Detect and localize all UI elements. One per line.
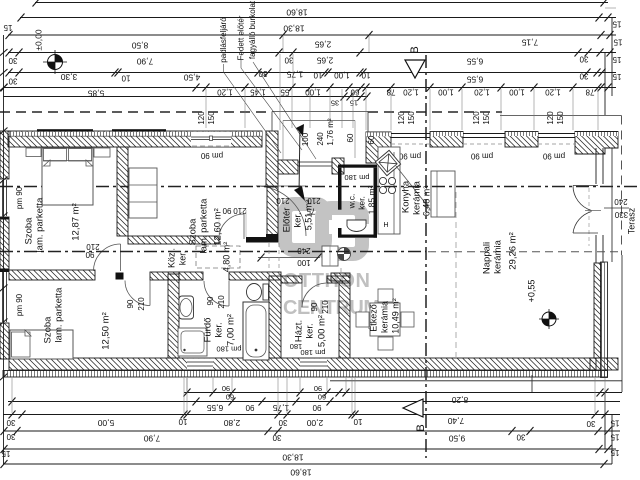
dining table bbox=[370, 303, 400, 336]
svg-text:lam. parketta: lam. parketta bbox=[199, 198, 210, 254]
door bedroom2 arc bbox=[125, 281, 150, 306]
svg-text:30: 30 bbox=[8, 56, 17, 65]
svg-text:1,85 m²: 1,85 m² bbox=[366, 185, 376, 214]
svg-text:ker.: ker. bbox=[177, 251, 187, 266]
svg-text:30: 30 bbox=[579, 71, 588, 80]
svg-text:Étkező: Étkező bbox=[368, 304, 378, 332]
entry recess wall right bbox=[332, 158, 344, 174]
dim line main chain bottom bbox=[3, 414, 620, 416]
dim line 8,50 2,65 7,15 top bbox=[8, 34, 616, 36]
dim line 18,30 top bbox=[20, 17, 616, 19]
svg-text:7,90: 7,90 bbox=[136, 56, 153, 66]
svg-text:15: 15 bbox=[610, 418, 619, 427]
glazing top kitchen window bbox=[391, 133, 430, 135]
right wall masonry bbox=[594, 263, 601, 358]
entry arrow bbox=[294, 186, 305, 201]
svg-text:pm 90: pm 90 bbox=[15, 186, 24, 209]
right wall exterior comb strip bbox=[601, 262, 608, 378]
svg-text:60: 60 bbox=[318, 393, 326, 402]
svg-text:ker.: ker. bbox=[293, 212, 304, 227]
svg-text:2,80: 2,80 bbox=[223, 418, 240, 428]
svg-text:6,55: 6,55 bbox=[466, 56, 483, 66]
svg-text:120: 120 bbox=[472, 111, 481, 125]
svg-text:pm 90: pm 90 bbox=[398, 151, 421, 160]
svg-text:90: 90 bbox=[310, 302, 319, 311]
svg-text:+0,55: +0,55 bbox=[526, 280, 536, 303]
svg-text:15: 15 bbox=[350, 99, 358, 108]
wc room walls bbox=[338, 165, 377, 168]
svg-text:240: 240 bbox=[316, 132, 325, 146]
entry door opening bbox=[298, 161, 332, 163]
svg-text:10: 10 bbox=[353, 417, 362, 426]
interior wall eloter left lower bbox=[267, 187, 278, 242]
living room top pier 2 bbox=[505, 132, 538, 148]
svg-text:5,51 m²: 5,51 m² bbox=[303, 200, 313, 231]
svg-text:ker.: ker. bbox=[214, 322, 225, 337]
svg-text:2,65: 2,65 bbox=[316, 55, 333, 65]
svg-text:7,90: 7,90 bbox=[143, 433, 160, 443]
svg-text:30: 30 bbox=[6, 418, 15, 427]
svg-text:210: 210 bbox=[86, 242, 100, 251]
svg-text:1,20: 1,20 bbox=[403, 87, 419, 96]
svg-text:15: 15 bbox=[612, 19, 621, 28]
svg-text:Előtér: Előtér bbox=[282, 208, 293, 233]
nightstand right bedroom1 bbox=[94, 148, 110, 157]
svg-text:90: 90 bbox=[314, 384, 322, 393]
door 12,60 opening arc bbox=[219, 214, 244, 239]
svg-text:padlásfeljáró: padlásfeljáró bbox=[219, 17, 228, 63]
door bathroom arc bbox=[204, 281, 229, 306]
svg-text:240: 240 bbox=[297, 246, 311, 255]
corner block bottom right bbox=[590, 358, 618, 370]
svg-text:Konyha: Konyha bbox=[401, 180, 412, 213]
svg-text:pm 180: pm 180 bbox=[344, 173, 369, 182]
dim line 5,85 and window chain top bbox=[3, 87, 616, 89]
dim line total 18,60 top bbox=[35, 2, 608, 4]
exterior wall top bedrooms bbox=[8, 131, 262, 147]
svg-text:150: 150 bbox=[407, 111, 416, 125]
svg-text:90: 90 bbox=[245, 403, 254, 412]
svg-text:90: 90 bbox=[206, 296, 215, 305]
svg-text:Szoba: Szoba bbox=[24, 217, 35, 245]
svg-text:60: 60 bbox=[346, 133, 355, 142]
entrance door swing arc bbox=[256, 186, 306, 236]
svg-text:Terasz: Terasz bbox=[626, 207, 636, 234]
svg-text:kerámia: kerámia bbox=[493, 239, 504, 274]
svg-text:kerámia: kerámia bbox=[379, 301, 389, 333]
interior wall bedroom1/12,60 bbox=[117, 147, 128, 236]
svg-text:Fedett előtér: Fedett előtér bbox=[237, 15, 246, 60]
svg-text:ker.: ker. bbox=[305, 323, 316, 338]
wc washbasin bbox=[347, 220, 366, 232]
svg-text:w.c.: w.c. bbox=[346, 194, 356, 210]
window bathroom bottom bbox=[187, 359, 213, 370]
eloter mini dim line bbox=[258, 257, 320, 259]
svg-text:15: 15 bbox=[1, 449, 10, 458]
svg-text:7,00 m²: 7,00 m² bbox=[226, 314, 237, 346]
terrace slab edge bbox=[611, 148, 613, 262]
svg-text:Nappali: Nappali bbox=[482, 242, 493, 274]
attic access dashed rect bbox=[196, 246, 240, 268]
wall bedroom1/bedroom2 bbox=[9, 270, 95, 280]
svg-text:60: 60 bbox=[367, 135, 376, 144]
dim chain 18,60 detailed top bbox=[8, 72, 616, 74]
section line B-B vertical bbox=[425, 55, 427, 458]
svg-text:ker.: ker. bbox=[356, 196, 366, 210]
shower bathroom bbox=[178, 328, 207, 356]
svg-text:18,30: 18,30 bbox=[282, 452, 304, 462]
exterior wall left bbox=[0, 131, 9, 179]
dim line 6,55 90 1,75 90 bottom bbox=[8, 401, 620, 403]
svg-text:90: 90 bbox=[222, 384, 230, 393]
svg-text:30: 30 bbox=[516, 432, 525, 441]
svg-text:35: 35 bbox=[331, 99, 339, 108]
corridor bottom wall left bbox=[116, 273, 124, 280]
svg-text:4,50: 4,50 bbox=[183, 72, 200, 82]
toilet bathroom bbox=[263, 284, 269, 300]
svg-text:pm 180: pm 180 bbox=[300, 348, 325, 357]
dim line 30 7,90 2,65 30 6,55 30 top bbox=[8, 52, 616, 54]
dim line 7,90 9,50 bottom bbox=[3, 430, 620, 432]
svg-text:10,49 m²: 10,49 m² bbox=[390, 298, 400, 334]
svg-text:210: 210 bbox=[276, 196, 290, 205]
roof overhang solid right bbox=[500, 115, 622, 117]
section line A-A horizontal lower jog bbox=[0, 251, 426, 253]
door bedroom1 arc bbox=[94, 244, 121, 271]
svg-text:12,87 m²: 12,87 m² bbox=[71, 203, 82, 241]
dim line 35 15 top bbox=[3, 96, 368, 98]
svg-text:B: B bbox=[409, 46, 421, 53]
north/level symbol top-left bbox=[43, 50, 67, 74]
svg-text:5,00 m²: 5,00 m² bbox=[317, 315, 328, 347]
svg-text:210: 210 bbox=[137, 297, 146, 311]
svg-text:7,15: 7,15 bbox=[521, 37, 538, 47]
svg-text:lam. parketta: lam. parketta bbox=[35, 197, 46, 253]
nightstand left bedroom1 bbox=[26, 148, 41, 157]
svg-text:2,65: 2,65 bbox=[314, 39, 331, 49]
eloter cabinet bbox=[322, 246, 338, 266]
right edge dim verticals bbox=[611, 18, 613, 97]
svg-text:15: 15 bbox=[612, 72, 621, 81]
svg-text:pm 90: pm 90 bbox=[200, 151, 223, 160]
svg-text:pm 90: pm 90 bbox=[470, 151, 493, 160]
wall left middle bbox=[0, 217, 9, 271]
svg-text:fagyálló burkolat: fagyálló burkolat bbox=[248, 0, 257, 59]
svg-text:1,00: 1,00 bbox=[438, 87, 454, 96]
window hazt bottom bbox=[300, 359, 327, 370]
porch outline bbox=[272, 111, 368, 113]
svg-text:,55: ,55 bbox=[280, 87, 292, 96]
svg-text:10: 10 bbox=[121, 73, 130, 82]
svg-text:1,00: 1,00 bbox=[509, 87, 525, 96]
svg-text:15: 15 bbox=[610, 432, 619, 441]
witness lines entrance chain bbox=[205, 89, 207, 128]
french door arcs bbox=[573, 186, 592, 211]
glazing top living window 2 bbox=[538, 133, 575, 135]
bed double bedroom1 bbox=[42, 148, 93, 205]
svg-text:1,20: 1,20 bbox=[545, 87, 561, 96]
svg-text:15: 15 bbox=[610, 448, 619, 457]
svg-text:1,76 m²: 1,76 m² bbox=[326, 118, 335, 145]
svg-text:1,00: 1,00 bbox=[334, 70, 350, 79]
svg-text:1,00: 1,00 bbox=[305, 87, 321, 96]
svg-text:150: 150 bbox=[482, 111, 491, 125]
level marker eloter bbox=[338, 248, 351, 261]
svg-text:30: 30 bbox=[8, 76, 17, 85]
wardrobe room 12,60 bbox=[129, 168, 157, 218]
level marker living bbox=[539, 309, 559, 329]
kitchen stove bbox=[379, 177, 386, 184]
svg-text:6,55: 6,55 bbox=[466, 74, 483, 84]
living room top pier 1 bbox=[430, 132, 463, 148]
svg-text:15: 15 bbox=[3, 23, 12, 32]
svg-text:120: 120 bbox=[397, 111, 406, 125]
shutter bar room 12,60 top bbox=[112, 129, 166, 131]
dining chairs bbox=[378, 289, 393, 302]
kitchen corner pier wall bbox=[366, 132, 391, 163]
svg-text:1,75: 1,75 bbox=[286, 69, 303, 79]
exterior wall bottom bbox=[9, 358, 596, 370]
svg-text:90: 90 bbox=[126, 299, 135, 308]
section line A-A horizontal bbox=[0, 186, 638, 188]
svg-text:18,60: 18,60 bbox=[286, 7, 308, 17]
wall bedroom2/bathroom bbox=[168, 274, 179, 358]
svg-text:1,45: 1,45 bbox=[250, 87, 266, 96]
svg-text:210: 210 bbox=[217, 295, 226, 309]
french door projection dashed bbox=[588, 188, 590, 246]
svg-text:lam. parketta: lam. parketta bbox=[54, 287, 65, 343]
entry recess wall bbox=[266, 131, 278, 187]
witness line terrace door bottom bbox=[531, 375, 533, 392]
zone dashed line living bbox=[428, 251, 620, 253]
svg-text:1,20: 1,20 bbox=[474, 87, 490, 96]
svg-text:120: 120 bbox=[546, 111, 555, 125]
right wall glazing lower bbox=[595, 235, 597, 263]
svg-text:90: 90 bbox=[312, 403, 321, 412]
svg-text:2,00: 2,00 bbox=[306, 418, 323, 428]
svg-text:210: 210 bbox=[321, 300, 330, 314]
kitchen counter bbox=[378, 147, 400, 234]
witness lines 2,65 top bbox=[282, 36, 284, 52]
svg-text:210: 210 bbox=[233, 206, 247, 215]
left edge dim line bbox=[3, 35, 5, 464]
svg-text:1,20: 1,20 bbox=[217, 87, 233, 96]
svg-text:29,26 m²: 29,26 m² bbox=[508, 232, 519, 270]
svg-text:150: 150 bbox=[207, 111, 216, 125]
svg-text:7,40: 7,40 bbox=[447, 416, 464, 426]
svg-text:10: 10 bbox=[361, 70, 370, 79]
corridor top wall bbox=[128, 236, 219, 244]
svg-text:30: 30 bbox=[272, 433, 281, 442]
svg-text:30: 30 bbox=[278, 418, 287, 427]
svg-text:30: 30 bbox=[284, 55, 293, 64]
watermark CC logo bbox=[285, 204, 325, 250]
corridor bottom wall mid bbox=[150, 272, 179, 280]
interior door witness lines bbox=[245, 210, 247, 237]
shutter bar bedroom1 top bbox=[37, 129, 93, 131]
hazt top wall bbox=[281, 276, 302, 283]
roof overhang dashed line bbox=[0, 111, 272, 113]
svg-text:15: 15 bbox=[612, 55, 621, 64]
window left bedroom2 bbox=[2, 272, 4, 322]
svg-text:12,50 m²: 12,50 m² bbox=[101, 312, 112, 350]
plinth strip bottom bbox=[3, 371, 608, 378]
svg-text:±0,00: ±0,00 bbox=[33, 29, 43, 50]
kitchen island bbox=[431, 171, 455, 217]
svg-text:H: H bbox=[383, 220, 388, 227]
svg-text:120: 120 bbox=[197, 111, 206, 125]
wall etkezo left bbox=[339, 281, 350, 358]
svg-text:10: 10 bbox=[313, 70, 322, 79]
svg-text:180: 180 bbox=[290, 342, 303, 351]
svg-text:78: 78 bbox=[585, 87, 594, 96]
zone dashed line kitchen-dining bbox=[455, 192, 457, 358]
svg-text:Szoba: Szoba bbox=[43, 316, 54, 344]
bathtub bbox=[243, 302, 269, 360]
living room top pier 3 corner bbox=[575, 132, 618, 155]
wall bathroom/hazt bbox=[269, 276, 281, 358]
svg-text:18,60: 18,60 bbox=[290, 467, 312, 477]
window room 12,60 top bbox=[191, 132, 231, 147]
svg-text:100: 100 bbox=[297, 258, 311, 267]
kitchen sink bbox=[375, 150, 400, 175]
svg-text:8,20: 8,20 bbox=[451, 395, 468, 405]
dim line windows bottom bbox=[184, 392, 622, 394]
svg-text:pm 90: pm 90 bbox=[542, 151, 565, 160]
corridor bottom wall right / bathroom top bbox=[179, 272, 203, 280]
svg-text:15: 15 bbox=[613, 37, 622, 46]
svg-text:pm 90: pm 90 bbox=[15, 293, 24, 316]
dim line 18,30 bottom bbox=[3, 448, 616, 450]
svg-text:30: 30 bbox=[579, 54, 588, 63]
svg-text:3,30: 3,30 bbox=[60, 72, 77, 82]
right wall glazing upper bbox=[595, 148, 597, 184]
svg-text:12,60 m²: 12,60 m² bbox=[213, 208, 224, 246]
dim fine chain entrance top bbox=[203, 84, 210, 92]
witness lines top windows bbox=[365, 89, 367, 130]
projection dashed eloter bbox=[268, 243, 270, 276]
svg-text:8,50: 8,50 bbox=[131, 40, 148, 50]
window left bedroom1 bbox=[2, 180, 4, 216]
svg-text:Szoba: Szoba bbox=[188, 218, 199, 246]
svg-text:150: 150 bbox=[556, 111, 565, 125]
dim line 18,60 bottom bbox=[3, 463, 612, 465]
witness lines bottom windows bbox=[186, 378, 188, 391]
svg-text:240: 240 bbox=[614, 197, 628, 206]
svg-text:30: 30 bbox=[6, 432, 15, 441]
witness lines bottom main bbox=[11, 378, 13, 413]
svg-text:Fürdő: Fürdő bbox=[203, 318, 214, 343]
svg-text:10: 10 bbox=[178, 417, 187, 426]
svg-text:30: 30 bbox=[586, 419, 595, 428]
washbasin bathroom bbox=[179, 296, 194, 319]
bed single bedroom2 bbox=[10, 330, 73, 359]
kitchen counter diagonal edge bbox=[396, 166, 430, 209]
section marker B top bbox=[405, 60, 425, 78]
svg-text:100: 100 bbox=[301, 132, 310, 146]
svg-text:9,50: 9,50 bbox=[448, 433, 465, 443]
wall left lower bbox=[0, 323, 9, 359]
glazing top living window 1 bbox=[463, 133, 505, 135]
right edge witness top bbox=[605, 7, 616, 9]
section marker B bottom bbox=[403, 399, 423, 417]
door hazt arc bbox=[302, 283, 326, 307]
svg-text:6,55: 6,55 bbox=[206, 403, 223, 413]
svg-text:5,00: 5,00 bbox=[97, 418, 114, 428]
svg-text:Házt.: Házt. bbox=[294, 320, 305, 342]
